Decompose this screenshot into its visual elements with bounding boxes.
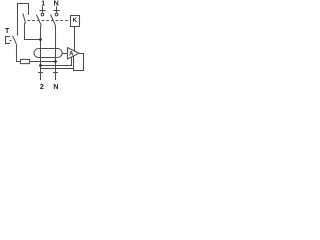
svg-text:N: N: [53, 84, 58, 90]
svg-text:A: A: [69, 52, 74, 58]
svg-text:N: N: [54, 1, 59, 8]
svg-text:K: K: [73, 18, 78, 24]
svg-text:T: T: [5, 28, 10, 35]
svg-text:2: 2: [40, 84, 44, 90]
svg-text:1: 1: [41, 1, 45, 8]
